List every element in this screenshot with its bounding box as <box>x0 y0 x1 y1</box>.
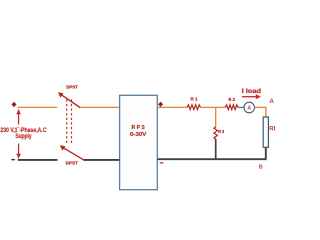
DPST linkage dashed lines <box>67 99 72 144</box>
DPST switch bottom arm <box>60 145 84 160</box>
load resistor Rl <box>263 117 268 147</box>
supply voltage label <box>0 128 47 140</box>
supply negative dash <box>11 159 15 161</box>
svg-text:DPST: DPST <box>66 85 78 90</box>
wire: switch to RPS neutral <box>83 159 119 161</box>
RPS label <box>130 125 147 138</box>
svg-text:R 2: R 2 <box>228 97 235 102</box>
svg-text:I load: I load <box>242 88 261 95</box>
wire: R3 top orange segment <box>215 107 217 127</box>
R1 value label <box>191 97 199 102</box>
supply label down arrow <box>16 144 21 159</box>
DPST label top <box>66 85 78 90</box>
I load label <box>242 88 261 95</box>
svg-text:Rl: Rl <box>269 125 275 132</box>
RPS box <box>120 95 158 189</box>
svg-text:0-30V: 0-30V <box>130 132 147 138</box>
wire: R2 to ammeter <box>238 106 244 108</box>
supply label up arrow <box>16 109 21 125</box>
node B label <box>259 164 263 170</box>
RPS + terminal diamond <box>158 102 163 107</box>
R2 value label <box>228 97 235 102</box>
I load arrow <box>242 94 261 99</box>
wire: supply live to switch contact <box>18 106 58 108</box>
wire: ammeter to node A corner <box>255 107 266 117</box>
RPS - terminal dash <box>159 162 163 164</box>
resistor R2 <box>225 105 238 110</box>
resistor R1 <box>187 105 201 110</box>
svg-text:A: A <box>247 106 251 112</box>
wire: Rl to node B <box>265 147 267 159</box>
svg-text:B: B <box>259 164 263 170</box>
svg-text:R 1: R 1 <box>191 97 199 102</box>
Rl value label <box>269 125 275 132</box>
wire: supply neutral to switch contact <box>18 159 58 161</box>
supply positive terminal diamond <box>12 102 17 107</box>
node A label <box>269 98 274 105</box>
svg-text:DPST: DPST <box>66 161 78 166</box>
svg-text:R 3: R 3 <box>218 129 225 134</box>
DPST label bottom <box>66 161 78 166</box>
wire: R1 to R2 through node <box>201 106 226 108</box>
R3 value label <box>218 129 225 134</box>
wire: bottom rail RPS to node B <box>157 158 266 160</box>
resistor R3 <box>214 127 218 139</box>
svg-text:A: A <box>269 98 274 105</box>
wire: switch to RPS live <box>80 106 120 108</box>
ammeter U1 <box>244 102 255 113</box>
svg-text:Supply: Supply <box>15 134 32 140</box>
wire: R3 bottom black segment <box>215 139 217 159</box>
svg-text:R P S: R P S <box>132 125 146 131</box>
DPST switch top arm <box>58 92 80 107</box>
wire: RPS to R1 <box>157 106 187 108</box>
